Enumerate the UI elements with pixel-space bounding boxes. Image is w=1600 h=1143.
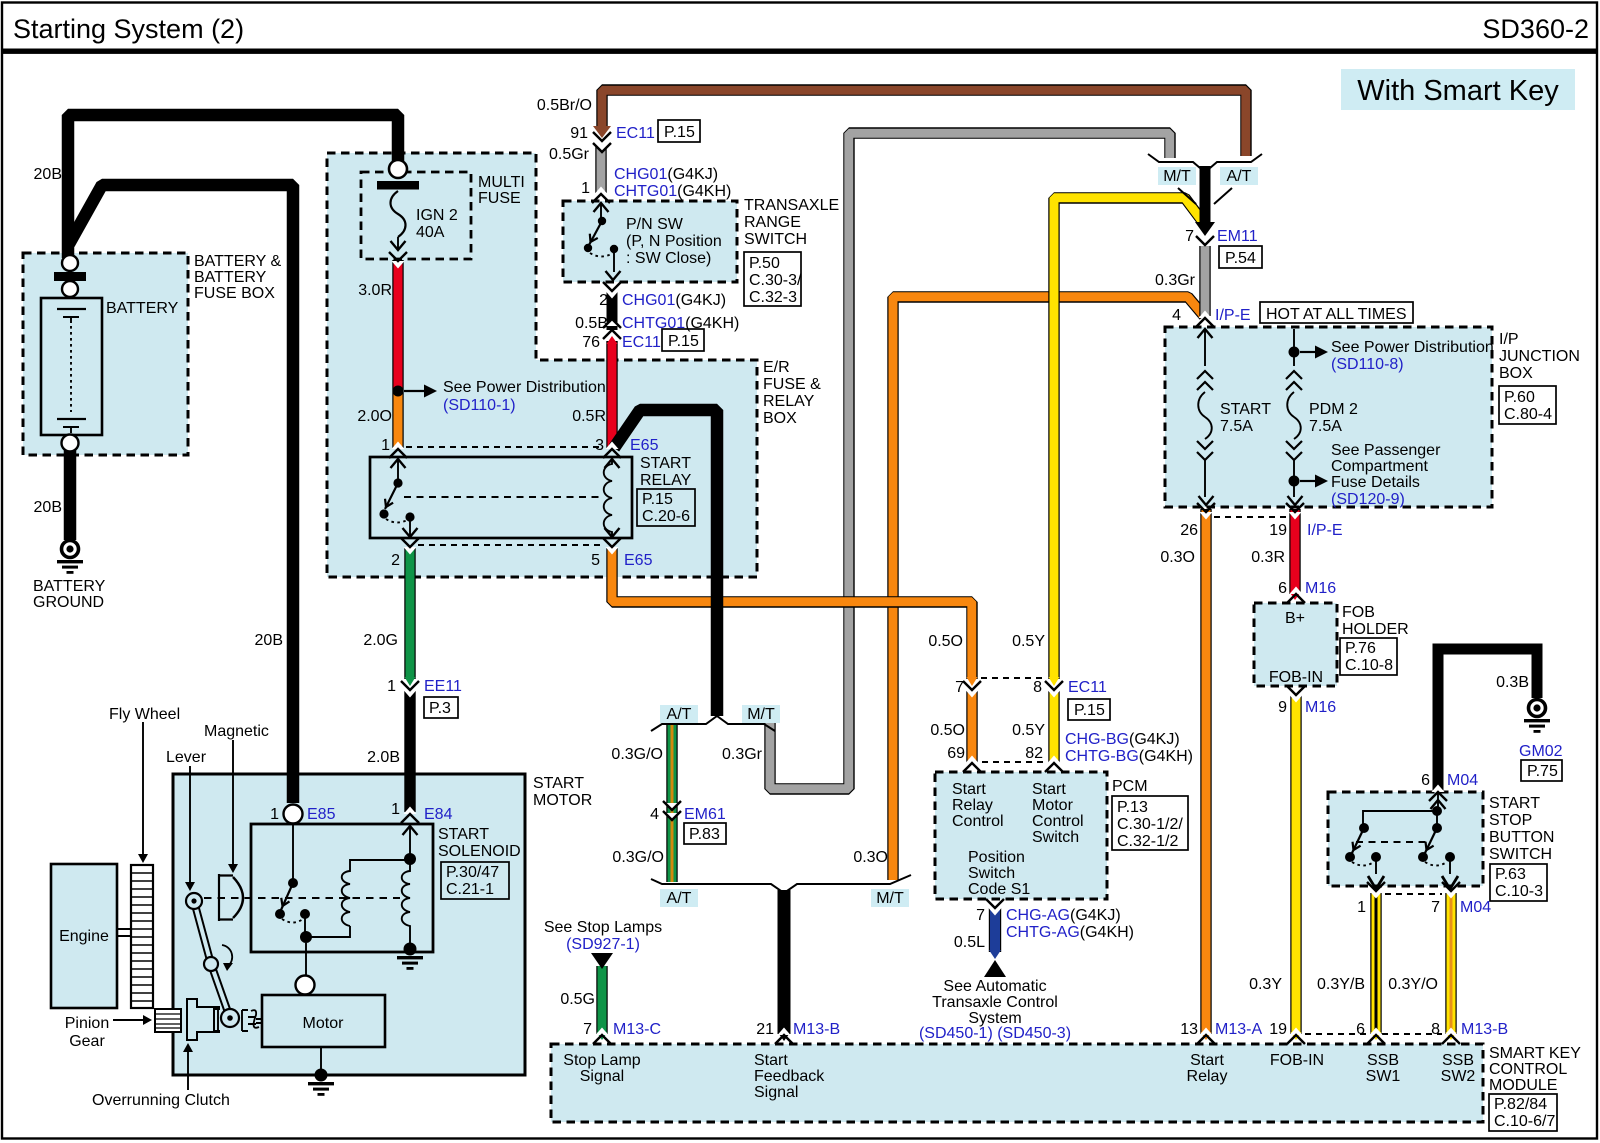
label arrow magnetic bbox=[232, 740, 234, 866]
wire black merge to M13-B 21 bbox=[778, 890, 791, 1034]
engine box bbox=[51, 864, 117, 1008]
svg-text:P.54: P.54 bbox=[1225, 250, 1256, 267]
svg-text:C.21-1: C.21-1 bbox=[446, 881, 494, 898]
wire 0.3G/O A/T branch through EM61 bbox=[666, 722, 677, 882]
I/P exit dashed link 26-19 bbox=[1214, 516, 1286, 518]
svg-text:P.83: P.83 bbox=[689, 826, 720, 843]
pinion gear hatched bbox=[155, 1009, 181, 1032]
solenoid pull-in coil bbox=[306, 860, 410, 937]
svg-text:M13-C: M13-C bbox=[613, 1021, 661, 1038]
svg-text:0.5R: 0.5R bbox=[572, 408, 606, 425]
svg-text:M16: M16 bbox=[1305, 699, 1336, 716]
svg-text:1: 1 bbox=[581, 180, 590, 197]
svg-text:C.32-3: C.32-3 bbox=[749, 289, 797, 306]
svg-text:M16: M16 bbox=[1305, 580, 1336, 597]
wire 0.3Gr EM11 to I/P-E 4 bbox=[1199, 246, 1210, 316]
svg-text:Lever: Lever bbox=[166, 749, 207, 766]
E/R fuse & relay box (L-shape) bbox=[327, 153, 757, 577]
svg-text:START: START bbox=[438, 826, 489, 843]
svg-text:7: 7 bbox=[976, 907, 985, 924]
svg-text:Start: Start bbox=[1190, 1052, 1224, 1069]
svg-text:P.15: P.15 bbox=[642, 491, 673, 508]
svg-text:6: 6 bbox=[1278, 580, 1287, 597]
svg-text:20B: 20B bbox=[34, 166, 62, 183]
svg-text:BATTERY &: BATTERY & bbox=[194, 253, 281, 270]
svg-text:See Power Distribution: See Power Distribution bbox=[1331, 339, 1494, 356]
svg-text:2: 2 bbox=[599, 292, 608, 309]
transaxle pin 2 exit connector bbox=[603, 282, 621, 299]
svg-text:2.0G: 2.0G bbox=[363, 632, 398, 649]
svg-text:HOT AT ALL TIMES: HOT AT ALL TIMES bbox=[1266, 306, 1407, 323]
svg-text:Start: Start bbox=[1032, 781, 1066, 798]
svg-text:P.75: P.75 bbox=[1527, 763, 1558, 780]
label arrow fly wheel bbox=[142, 722, 144, 856]
svg-text:MODULE: MODULE bbox=[1489, 1077, 1557, 1094]
svg-text:SWITCH: SWITCH bbox=[744, 231, 807, 248]
svg-text:FUSE &: FUSE & bbox=[763, 376, 821, 393]
wire 3.0R multi fuse to junction bbox=[392, 260, 403, 392]
svg-text:7: 7 bbox=[583, 1021, 592, 1038]
multi fuse exit chevron bbox=[389, 252, 407, 269]
svg-text:FUSE BOX: FUSE BOX bbox=[194, 285, 275, 302]
svg-text:TRANSAXLE: TRANSAXLE bbox=[744, 197, 839, 214]
start motor box bbox=[173, 774, 525, 1075]
svg-text:START: START bbox=[1220, 401, 1271, 418]
svg-text:P/N SW: P/N SW bbox=[626, 216, 684, 233]
wire black M/T-A/T merge to EM11 7 bbox=[1200, 166, 1211, 224]
svg-text:Gear: Gear bbox=[69, 1033, 105, 1050]
svg-text:E/R: E/R bbox=[763, 359, 790, 376]
E85 terminal circle bbox=[284, 805, 303, 824]
svg-text:B+: B+ bbox=[1285, 610, 1305, 627]
svg-text:C.30-1/2/: C.30-1/2/ bbox=[1117, 816, 1183, 833]
svg-text:P.76: P.76 bbox=[1345, 640, 1376, 657]
title separator thick line bbox=[1, 49, 1598, 54]
svg-text:4: 4 bbox=[650, 806, 659, 823]
svg-text:7: 7 bbox=[1431, 899, 1440, 916]
label A/T M/T merge bbox=[660, 889, 698, 907]
I/P junction box bbox=[1165, 327, 1492, 507]
svg-text:7: 7 bbox=[1185, 228, 1194, 245]
svg-text:(SD110-1): (SD110-1) bbox=[443, 397, 516, 414]
ref box P.63 C.10-3 bbox=[1490, 864, 1547, 901]
solenoid internal dashed link bbox=[204, 897, 400, 899]
EM11 7 mid connector bbox=[1196, 236, 1214, 247]
svg-text:HOLDER: HOLDER bbox=[1342, 621, 1409, 638]
wire 2.0O junction to relay pin 1 bbox=[392, 392, 403, 449]
magnetic plunger bbox=[219, 874, 233, 921]
svg-text:6: 6 bbox=[1421, 772, 1430, 789]
svg-text:M04: M04 bbox=[1460, 899, 1491, 916]
svg-text:20B: 20B bbox=[34, 499, 62, 516]
svg-text:1: 1 bbox=[381, 437, 390, 454]
svg-text:P.30/47: P.30/47 bbox=[446, 864, 499, 881]
svg-text:(SD110-8): (SD110-8) bbox=[1331, 356, 1404, 373]
svg-text:Starting System (2): Starting System (2) bbox=[13, 14, 244, 44]
M04 6 entry connector bbox=[1429, 785, 1447, 802]
svg-text:C.10-8: C.10-8 bbox=[1345, 657, 1393, 674]
svg-text:SOLENOID: SOLENOID bbox=[438, 843, 521, 860]
svg-text:0.5Y: 0.5Y bbox=[1012, 722, 1045, 739]
wire thick black relay pin3 node to A/T-M/T split bbox=[614, 410, 717, 716]
label arrow pinion gear bbox=[113, 1019, 143, 1021]
wire 0.3R I/P 19 to M16 6 bbox=[1289, 509, 1300, 594]
svg-text:CHTG01(G4KH): CHTG01(G4KH) bbox=[614, 183, 731, 200]
svg-text:0.3R: 0.3R bbox=[1251, 549, 1285, 566]
svg-text:A/T: A/T bbox=[1227, 168, 1252, 185]
svg-text:(P, N Position: (P, N Position bbox=[626, 233, 722, 250]
svg-text:0.5G: 0.5G bbox=[560, 991, 595, 1008]
relay switch: line, contact dots, blade bbox=[397, 459, 399, 480]
M16 6 entry connector (FOB holder) bbox=[1287, 587, 1305, 604]
svg-text:PCM: PCM bbox=[1112, 778, 1148, 795]
svg-text:Relay: Relay bbox=[952, 797, 993, 814]
svg-text:0.5Br/O: 0.5Br/O bbox=[537, 97, 592, 114]
multi fuse IGN2 wiggle element bbox=[391, 191, 406, 237]
E65 dashed connector link pins 1-3 bbox=[406, 446, 604, 448]
svg-text:M13-B: M13-B bbox=[1461, 1021, 1508, 1038]
svg-text:P.13: P.13 bbox=[1117, 799, 1148, 816]
wire 0.5R EC11 76 to relay pin 3 bbox=[606, 341, 617, 449]
ref box P.13 C.30-1/2/ C.32-1/2 bbox=[1112, 796, 1188, 850]
A/T M/T split bracket under E/R box bbox=[651, 716, 775, 731]
svg-text:0.3Y: 0.3Y bbox=[1249, 976, 1282, 993]
svg-text:1: 1 bbox=[270, 806, 279, 823]
wire 0.5G stop lamp to M13-C 7 bbox=[596, 966, 607, 1034]
svg-text:See Stop Lamps: See Stop Lamps bbox=[544, 919, 662, 936]
svg-text:C.30-3/: C.30-3/ bbox=[749, 272, 802, 289]
M04 7 exit connector bbox=[1442, 876, 1458, 889]
svg-text:M/T: M/T bbox=[1163, 168, 1191, 185]
svg-text:8: 8 bbox=[1431, 1021, 1440, 1038]
svg-text:M/T: M/T bbox=[876, 890, 904, 907]
svg-text:Start: Start bbox=[952, 781, 986, 798]
svg-text:19: 19 bbox=[1269, 1021, 1287, 1038]
svg-text:EC11: EC11 bbox=[616, 125, 655, 142]
svg-text:Feedback: Feedback bbox=[754, 1068, 825, 1085]
svg-text:0.3Gr: 0.3Gr bbox=[1155, 272, 1196, 289]
wire 0.3Y/B SSB SW1 to pin 6 bbox=[1370, 893, 1381, 1034]
svg-text:C.80-4: C.80-4 bbox=[1504, 406, 1552, 423]
ref box P.76 C.10-8 bbox=[1340, 638, 1397, 675]
motor M terminal bbox=[305, 943, 307, 975]
wire 0.5Gr EC11 91 to transaxle range switch pin 1 bbox=[595, 146, 606, 193]
svg-text:See Automatic: See Automatic bbox=[943, 978, 1046, 995]
svg-text:E84: E84 bbox=[424, 806, 453, 823]
svg-text:P.15: P.15 bbox=[1074, 702, 1105, 719]
start stop switch internals bbox=[1437, 792, 1439, 807]
svg-text:EE11: EE11 bbox=[424, 678, 462, 695]
start relay box bbox=[370, 457, 632, 538]
svg-text:Fly Wheel: Fly Wheel bbox=[109, 706, 180, 723]
P/N SW switch bbox=[600, 203, 602, 218]
svg-text:7: 7 bbox=[955, 679, 964, 696]
clutch fork and shaft to motor bbox=[242, 1010, 256, 1031]
svg-text:BATTERY: BATTERY bbox=[106, 300, 179, 317]
svg-text:0.5Y: 0.5Y bbox=[1012, 633, 1045, 650]
PCM 82 entry connector bbox=[1045, 756, 1063, 773]
relay pin 3 connector bbox=[603, 442, 621, 459]
M04 dashed link 1-7 bbox=[1385, 893, 1442, 895]
battery B+ terminal bbox=[62, 255, 78, 271]
relay pin 1 connector bbox=[389, 442, 407, 459]
svg-text:Engine: Engine bbox=[59, 928, 109, 945]
svg-text:START: START bbox=[533, 775, 584, 792]
svg-text:M04: M04 bbox=[1447, 772, 1478, 789]
transaxle range switch box bbox=[563, 201, 737, 282]
relay coil bbox=[604, 459, 612, 537]
svg-text:0.5O: 0.5O bbox=[928, 633, 963, 650]
svg-text:E65: E65 bbox=[624, 552, 653, 569]
svg-text:1: 1 bbox=[1357, 899, 1366, 916]
svg-text:Code S1: Code S1 bbox=[968, 881, 1030, 898]
start solenoid box bbox=[251, 824, 433, 952]
svg-text:0.3Y/O: 0.3Y/O bbox=[1388, 976, 1438, 993]
wire 0.5Y EC11 8 to PCM 82 bbox=[1048, 691, 1059, 763]
wire 2.0B EE11 to E84 bbox=[404, 691, 415, 812]
hot at all times box bbox=[1260, 302, 1413, 323]
svg-text:0.3G/O: 0.3G/O bbox=[612, 849, 664, 866]
wire orange hot feed: M/T bracket up and over to I/P-E 4 bbox=[893, 297, 1204, 880]
svg-text:BOX: BOX bbox=[763, 410, 797, 427]
svg-text:(SD120-9): (SD120-9) bbox=[1331, 491, 1405, 508]
svg-text:Motor: Motor bbox=[1032, 797, 1074, 814]
svg-text:13: 13 bbox=[1180, 1021, 1198, 1038]
svg-text:C.10-6/7: C.10-6/7 bbox=[1494, 1113, 1555, 1130]
wire 20B branch battery to E85 bbox=[69, 185, 293, 803]
svg-text:With Smart Key: With Smart Key bbox=[1357, 75, 1559, 107]
label arrow overrunning clutch bbox=[187, 1050, 189, 1090]
wire 0.5L PCM 7 to automatic transaxle bbox=[989, 908, 1001, 952]
svg-text:91: 91 bbox=[570, 125, 588, 142]
multi fuse inner box bbox=[361, 172, 471, 259]
E65 dashed connector link pins 2-5 bbox=[418, 544, 604, 546]
battery ground symbol bbox=[62, 541, 79, 558]
svg-text:0.3B: 0.3B bbox=[1496, 674, 1529, 691]
svg-text:Signal: Signal bbox=[754, 1084, 798, 1101]
svg-text:RELAY: RELAY bbox=[763, 393, 815, 410]
label arrow lever bbox=[189, 766, 191, 884]
svg-text:3: 3 bbox=[595, 437, 604, 454]
svg-text:MULTI: MULTI bbox=[478, 174, 525, 191]
svg-text:SSB: SSB bbox=[1367, 1052, 1399, 1069]
FOB-IN 9 exit connector bbox=[1287, 686, 1305, 703]
engine to flywheel shaft bbox=[117, 929, 131, 936]
svg-text:9: 9 bbox=[1278, 699, 1287, 716]
wire 0.3Gr long M/T branch under E/R box up to M/T connector bbox=[770, 133, 1170, 789]
battery & battery fuse box bbox=[23, 253, 188, 455]
solenoid switch bbox=[292, 824, 294, 879]
svg-text:EM11: EM11 bbox=[1217, 228, 1258, 245]
svg-text:See Passenger: See Passenger bbox=[1331, 442, 1441, 459]
svg-text:FOB-IN: FOB-IN bbox=[1270, 1052, 1324, 1069]
battery BATTERY symbol bbox=[41, 298, 102, 435]
svg-text:PDM 2: PDM 2 bbox=[1309, 401, 1358, 418]
svg-text:21: 21 bbox=[756, 1021, 774, 1038]
wire 0.3B M04 6 to ground GM02 bbox=[1438, 649, 1537, 790]
solenoid hold-in coil and E84 feed bbox=[409, 824, 411, 855]
svg-text:Fuse Details: Fuse Details bbox=[1331, 474, 1420, 491]
svg-text:P.82/84: P.82/84 bbox=[1494, 1096, 1547, 1113]
svg-text:0.5Gr: 0.5Gr bbox=[549, 146, 590, 163]
svg-text:76: 76 bbox=[582, 334, 600, 351]
see stop lamps triangle bbox=[591, 953, 613, 969]
svg-text:Motor: Motor bbox=[303, 1015, 345, 1032]
solenoid coil ground bbox=[404, 943, 417, 956]
svg-text:SW1: SW1 bbox=[1366, 1068, 1401, 1085]
ref box P.82/84 C.10-6/7 bbox=[1489, 1094, 1557, 1131]
svg-text:IGN 2: IGN 2 bbox=[416, 207, 458, 224]
multi fuse IGN 2 40A fuse: terminal circle bbox=[389, 160, 407, 178]
svg-text:STOP: STOP bbox=[1489, 812, 1532, 829]
svg-text:BOX: BOX bbox=[1499, 365, 1533, 382]
svg-text:EC11: EC11 bbox=[1068, 679, 1107, 696]
smart key box entry connectors: M13-C 7, M13-B 21, M13-A 13, 19, 6, 8 bbox=[593, 1028, 611, 1045]
svg-text:E65: E65 bbox=[630, 437, 659, 454]
svg-text:SMART KEY: SMART KEY bbox=[1489, 1045, 1581, 1062]
svg-text:P.15: P.15 bbox=[664, 124, 695, 141]
svg-text:0.3O: 0.3O bbox=[1160, 549, 1195, 566]
svg-text:Magnetic: Magnetic bbox=[204, 723, 269, 740]
wire 0.5Y yellow EM11 area to EC11 8 bbox=[1054, 198, 1203, 679]
ref box P.50 C.30-3/ C.32-3 bbox=[744, 252, 801, 306]
svg-text:A/T: A/T bbox=[667, 890, 692, 907]
svg-text:E85: E85 bbox=[307, 806, 336, 823]
svg-text:26: 26 bbox=[1180, 522, 1198, 539]
svg-text:8: 8 bbox=[1033, 679, 1042, 696]
svg-text:START: START bbox=[1489, 795, 1540, 812]
svg-text:1: 1 bbox=[387, 678, 396, 695]
E84 entry connector bbox=[401, 807, 419, 824]
svg-text:Signal: Signal bbox=[580, 1068, 624, 1085]
svg-text:I/P-E: I/P-E bbox=[1215, 307, 1251, 324]
svg-text:0.5L: 0.5L bbox=[954, 934, 985, 951]
svg-text:Stop Lamp: Stop Lamp bbox=[563, 1052, 640, 1069]
svg-text:P.3: P.3 bbox=[429, 700, 451, 717]
relay internal mechanical dashed link bbox=[404, 496, 604, 498]
wire 20B battery+ to multi fuse bbox=[68, 115, 398, 258]
EC11 76 mid connector bbox=[603, 319, 621, 340]
svg-text:Transaxle Control: Transaxle Control bbox=[932, 994, 1058, 1011]
svg-text:FOB-IN: FOB-IN bbox=[1269, 669, 1323, 686]
svg-text:3.0R: 3.0R bbox=[358, 282, 392, 299]
svg-text:Switch: Switch bbox=[1032, 829, 1079, 846]
svg-text:GM02: GM02 bbox=[1519, 743, 1563, 760]
svg-text:Pinion: Pinion bbox=[65, 1015, 109, 1032]
svg-text:Compartment: Compartment bbox=[1331, 458, 1428, 475]
svg-text:CHG01(G4KJ): CHG01(G4KJ) bbox=[614, 166, 718, 183]
wire 0.3O I/P 26 to M13-A 13 bbox=[1200, 509, 1211, 1034]
svg-text:1: 1 bbox=[391, 801, 400, 818]
EM61 4 pass connector bbox=[663, 801, 681, 821]
svg-text:P.15: P.15 bbox=[668, 333, 699, 350]
junction dot see power distribution SD110-1 bbox=[393, 386, 404, 397]
svg-text:CHG-BG(G4KJ): CHG-BG(G4KJ) bbox=[1065, 731, 1180, 748]
svg-text:6: 6 bbox=[1356, 1021, 1365, 1038]
svg-text:SD360-2: SD360-2 bbox=[1482, 14, 1589, 44]
svg-text:FUSE: FUSE bbox=[478, 190, 521, 207]
svg-text:RELAY: RELAY bbox=[640, 472, 692, 489]
relay pin 5 exit connector bbox=[605, 528, 620, 537]
svg-text:19: 19 bbox=[1269, 522, 1287, 539]
M04 1 exit connector bbox=[1368, 876, 1384, 889]
svg-text:0.5B: 0.5B bbox=[575, 315, 608, 332]
wire 0.3Y/O SSB SW2 to pin 8 bbox=[1445, 893, 1456, 1034]
wire 0.3Y FOB-IN 9 to pin 19 bbox=[1290, 695, 1301, 1034]
svg-text:: SW Close): : SW Close) bbox=[626, 250, 711, 267]
svg-text:7.5A: 7.5A bbox=[1220, 418, 1253, 435]
svg-text:CHTG-BG(G4KH): CHTG-BG(G4KH) bbox=[1065, 748, 1193, 765]
svg-text:See Power Distribution: See Power Distribution bbox=[443, 379, 606, 396]
svg-text:Position: Position bbox=[968, 849, 1025, 866]
ref box P.30/47 C.21-1 bbox=[441, 862, 509, 899]
I/P fuse PDM 2 7.5A bbox=[1293, 329, 1295, 366]
svg-text:(SD450-1) (SD450-3): (SD450-1) (SD450-3) bbox=[919, 1025, 1071, 1042]
ref box P.60 C.80-4 bbox=[1499, 386, 1556, 424]
A/T M/T merge bracket above M13-B wire bbox=[651, 875, 911, 893]
PCM box bbox=[935, 772, 1107, 899]
svg-text:82: 82 bbox=[1025, 745, 1043, 762]
overrunning clutch assembly bbox=[187, 999, 219, 1040]
svg-text:0.3G/O: 0.3G/O bbox=[611, 746, 663, 763]
EC11 8 mid connector bbox=[1045, 681, 1063, 698]
svg-text:SSB: SSB bbox=[1442, 1052, 1474, 1069]
wire 2.0G relay pin 2 to EE11 bbox=[404, 547, 415, 679]
svg-text:START: START bbox=[640, 455, 691, 472]
svg-text:M/T: M/T bbox=[747, 706, 775, 723]
svg-text:0.5O: 0.5O bbox=[930, 722, 965, 739]
With Smart Key label bbox=[1341, 69, 1575, 110]
svg-text:40A: 40A bbox=[416, 224, 445, 241]
svg-text:M13-A: M13-A bbox=[1215, 1021, 1262, 1038]
ref box P.15 C.20-6 bbox=[637, 489, 695, 526]
svg-text:20B: 20B bbox=[255, 632, 283, 649]
lever arm bbox=[194, 901, 230, 1018]
svg-text:Relay: Relay bbox=[1187, 1068, 1228, 1085]
svg-text:Start: Start bbox=[754, 1052, 788, 1069]
label M/T A/T top connectors bbox=[1158, 167, 1196, 185]
smart key control module box bbox=[551, 1044, 1483, 1122]
svg-text:SW2: SW2 bbox=[1441, 1068, 1476, 1085]
svg-text:0.3Y/B: 0.3Y/B bbox=[1317, 976, 1365, 993]
svg-text:Switch: Switch bbox=[968, 865, 1015, 882]
wire 0.5O EC11 7 to PCM 69 bbox=[966, 691, 977, 763]
svg-text:P.50: P.50 bbox=[749, 255, 780, 272]
lever rotation arrow bbox=[222, 945, 232, 966]
svg-text:2: 2 bbox=[391, 552, 400, 569]
motor box bbox=[262, 995, 385, 1047]
svg-text:P.60: P.60 bbox=[1504, 389, 1535, 406]
svg-text:0.3Gr: 0.3Gr bbox=[722, 746, 763, 763]
ground GM02 symbol bbox=[1529, 700, 1546, 717]
svg-text:EM61: EM61 bbox=[684, 806, 726, 823]
svg-text:5: 5 bbox=[591, 552, 600, 569]
I/P-E 4 entry connector bbox=[1196, 311, 1214, 328]
svg-text:FOB: FOB bbox=[1342, 604, 1375, 621]
PCM 69 entry connector bbox=[963, 756, 981, 773]
M/T A/T option brackets top (to EM11) bbox=[1148, 154, 1262, 168]
wire orange relay pin 5 to EC11 7 bbox=[612, 548, 972, 679]
svg-text:C.20-6: C.20-6 bbox=[642, 508, 690, 525]
svg-text:CONTROL: CONTROL bbox=[1489, 1061, 1567, 1078]
svg-text:2.0B: 2.0B bbox=[367, 749, 400, 766]
svg-text:Control: Control bbox=[952, 813, 1004, 830]
svg-text:69: 69 bbox=[947, 745, 965, 762]
relay pin 2 exit connector bbox=[401, 538, 419, 555]
M13-B dashed link 19-6-8 bbox=[1305, 1033, 1442, 1035]
EC11 7 mid connector bbox=[963, 681, 981, 698]
svg-text:JUNCTION: JUNCTION bbox=[1499, 348, 1580, 365]
